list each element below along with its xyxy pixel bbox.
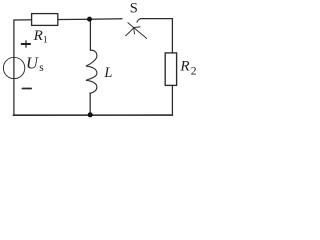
inductor L bottom stub bbox=[89, 93, 91, 115]
switch S blade arrow shaft bbox=[128, 23, 147, 39]
svg-text:U: U bbox=[26, 53, 39, 72]
svg-text:L: L bbox=[103, 65, 112, 81]
svg-text:s: s bbox=[39, 62, 44, 74]
svg-text:S: S bbox=[130, 1, 138, 17]
resistor R2 body bbox=[165, 53, 176, 86]
svg-text:R: R bbox=[179, 59, 189, 75]
switch S arrow barb right bbox=[134, 26, 141, 29]
svg-text:R: R bbox=[33, 28, 43, 44]
wire top right (switch to corner) bbox=[141, 18, 173, 20]
resistor R1 body bbox=[32, 14, 58, 26]
wire right side upper (corner to R2) bbox=[171, 19, 173, 53]
wire bottom bbox=[13, 114, 172, 116]
switch S motion arc tail bbox=[126, 28, 133, 35]
svg-text:1: 1 bbox=[43, 36, 48, 46]
inductor L coil bbox=[86, 50, 97, 93]
source minus sign bbox=[22, 88, 31, 90]
svg-text:2: 2 bbox=[191, 66, 197, 78]
wire left side bbox=[13, 20, 15, 115]
wire right side lower (R2 to bottom corner) bbox=[171, 85, 173, 115]
node junction dot bottom bbox=[88, 112, 93, 117]
switch S arrow barb down bbox=[133, 28, 136, 34]
inductor L top stub bbox=[89, 19, 91, 50]
switch S fixed contact hook bbox=[137, 19, 141, 23]
node junction dot top bbox=[87, 17, 92, 22]
source plus sign bbox=[22, 41, 31, 47]
voltage source U_s circle bbox=[3, 57, 24, 78]
wire top (left corner to switch gap) bbox=[14, 19, 122, 20]
